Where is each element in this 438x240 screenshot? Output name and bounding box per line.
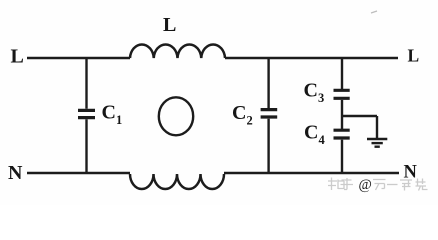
C4 top lead wire from earth junction	[341, 116, 343, 129]
C4 top plate	[334, 129, 350, 132]
C3 top lead wire	[341, 58, 343, 89]
svg-text:L: L	[163, 14, 176, 36]
watermark char 选	[416, 179, 428, 191]
watermark char 知	[328, 178, 344, 191]
C1 top lead wire	[85, 58, 87, 109]
watermark char 万	[373, 180, 386, 191]
C4 bottom plate	[334, 136, 350, 139]
C2 top lead wire	[267, 58, 269, 108]
C1 bottom lead wire	[85, 119, 87, 173]
wire: top rail left segment (L terminal to choke winding, C1 junction at x=86.5)	[27, 57, 130, 59]
C3 top plate	[334, 89, 350, 92]
inductor (common-mode choke, bottom winding, 4 arcs below the rail)	[130, 174, 224, 189]
watermark char 严	[400, 180, 412, 191]
C4 bottom lead wire	[341, 140, 343, 173]
watermark char 一	[387, 184, 398, 186]
wire: bottom rail left segment (N terminal to choke winding, C1 junction at x=86.5)	[27, 172, 130, 174]
watermark char @	[359, 177, 372, 193]
choke core (circle between windings)	[159, 97, 193, 135]
svg-text:N: N	[8, 162, 23, 184]
C1 bottom plate	[78, 116, 95, 119]
C3 bottom lead wire to earth junction	[341, 100, 343, 116]
ground bar 2	[372, 142, 383, 144]
wire: bottom rail right segment (choke to right N terminal, junctions at C2 and C4)	[224, 172, 399, 174]
scan speck (faint mark top right)	[371, 11, 377, 13]
C1 top plate	[78, 109, 95, 112]
ground bar 3	[375, 145, 380, 147]
capacitor C4 (Y-cap, earth to N)	[334, 116, 350, 173]
ground	[367, 116, 387, 147]
C2 bottom lead wire	[267, 119, 269, 173]
svg-text:L: L	[11, 46, 24, 68]
capacitor C3 (Y-cap, L to earth)	[334, 58, 350, 116]
watermark char 乎	[341, 178, 354, 190]
capacitor C2 (X-cap between L and N, right of choke)	[261, 58, 278, 173]
C2 bottom plate	[261, 115, 278, 118]
capacitor C1 (X-cap between L and N, left)	[78, 58, 95, 173]
C2 top plate	[261, 108, 278, 111]
ground bar 1	[367, 138, 387, 141]
wire: earth branch from C3/C4 junction	[342, 115, 377, 117]
ground stem	[376, 116, 378, 138]
svg-text:L: L	[408, 46, 420, 66]
inductor L (common-mode choke, top winding, 4 arcs)	[130, 44, 225, 58]
svg-text:@: @	[359, 177, 372, 193]
C3 bottom plate	[334, 97, 350, 100]
wire: top rail right segment (choke to right L terminal, junctions at C2 and C3)	[225, 57, 398, 59]
watermark "知乎 @万一严选" drawn as light strokes	[328, 177, 428, 193]
